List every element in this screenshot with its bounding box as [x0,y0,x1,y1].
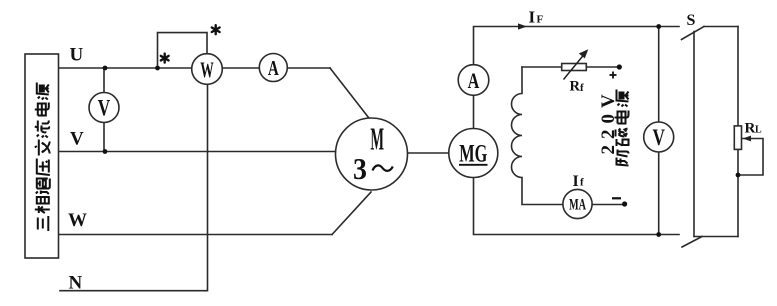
wire voltmeter V1 branch [103,68,105,152]
meter letter V1 [98,96,111,121]
svg-text:F: F [537,14,544,26]
label - terminal [612,197,621,199]
svg-text:U: U [70,45,84,66]
svg-text:f: f [580,177,584,189]
generator MG [449,129,498,178]
char 流 [35,121,49,138]
char 交 [35,140,50,156]
wire MG up through A2 to top rail [474,27,680,154]
vertical label 220V [598,88,619,154]
svg-text:I: I [529,8,536,27]
wire U line [59,67,331,69]
current arrow IF on top rail [518,23,527,29]
char 调 [36,179,50,195]
char 励 [617,150,629,166]
char 源 (second) [37,83,49,100]
svg-text:M: M [370,123,384,158]
milliammeter MA [563,189,592,218]
meter letters MA [569,195,586,213]
svg-text:MA: MA [569,195,586,213]
svg-text:W: W [200,57,214,82]
rheostat Rf arrow [564,49,589,79]
wire V line [59,151,372,153]
svg-text:f: f [580,82,584,94]
switch S blade bottom [682,237,702,248]
motor letter M [370,123,384,158]
node bottom rail / right rail [656,232,661,237]
wattmeter W1 [192,54,223,85]
node top rail / right rail [656,24,661,29]
wire U diagonal to motor [330,68,372,122]
meter letter W1 [200,57,214,82]
wire MG down to bottom rail [474,153,680,235]
ammeter A2 [458,65,489,96]
char 三 [38,216,49,231]
svg-text:W: W [68,210,87,231]
fake CJK column 励磁电源 (rotated) [615,90,629,166]
wire switched middle vertical [693,32,695,237]
char 相 [35,197,50,213]
node U-loop junction [155,66,160,71]
wire switched top to RL [704,26,738,28]
terminal - dot [622,201,627,206]
node V-V1 junction [103,149,108,154]
load RL wiper arrowhead [743,136,752,142]
label + terminal [610,72,617,79]
svg-text:MG: MG [459,139,487,168]
svg-text:S: S [687,12,696,29]
wire RL branch vertical [737,27,739,237]
wire wattmeter voltage-coil loop [158,33,208,69]
wire right rail with V2 [658,27,660,235]
svg-text:A: A [468,69,480,93]
svg-text:V: V [652,126,665,151]
meter letter A2 [468,69,480,93]
rheostat Rf body [562,64,587,71]
inductor field winding L [512,67,625,205]
meter letter A1 [268,56,280,79]
motor label ~ [373,165,393,170]
wire motor to generator shaft link [371,152,474,154]
fake CJK column 三相调压交流电源 (rotated, reads bottom to top) [35,83,50,232]
svg-text:V: V [70,129,84,150]
asterisk mark at wattmeter loop top [212,25,220,34]
wire N line [60,69,208,291]
voltmeter V2 [644,122,674,152]
svg-text:I: I [573,173,579,190]
wire switched bottom horizontal [694,236,738,238]
wire W diagonal to motor [332,192,371,235]
svg-text:N: N [69,273,83,294]
terminal + dot [617,64,622,69]
char 源 [617,90,629,107]
node U-V1 junction [103,66,108,71]
char 压 [37,159,50,176]
svg-text:R: R [745,121,756,137]
svg-text:V: V [98,96,111,121]
svg-text:A: A [268,56,280,79]
motor M [336,118,408,190]
svg-text:R: R [570,79,581,95]
motor label 3 [353,153,367,187]
voltmeter V1 [89,93,119,123]
ammeter A1 [259,54,287,82]
char 电 (second) [35,103,49,116]
node RL wiper junction [736,173,741,178]
char 磁 [616,129,629,147]
svg-text:3: 3 [353,153,367,187]
meter letters MG + underline [459,139,487,168]
three-phase source box [25,54,59,258]
wire RL wiper [738,139,763,176]
load rheostat RL body [734,126,741,149]
svg-text:L: L [755,125,762,136]
meter letter V2 [652,126,665,151]
char 电 [615,111,629,124]
wire field top to + terminal [522,66,619,68]
asterisk mark near wattmeter node [161,54,169,63]
wire W line [59,234,333,236]
switch S blade top [682,27,705,40]
